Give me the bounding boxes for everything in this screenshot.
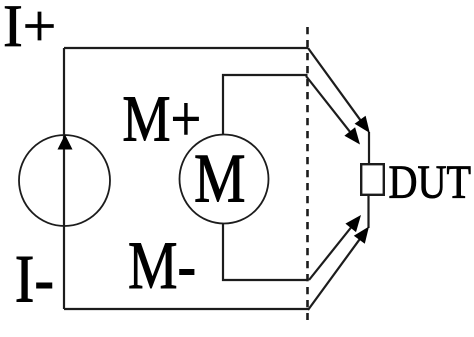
wire: sense lead diagonal M+ to DUT top [306, 76, 353, 135]
meter M1 (circle) [180, 135, 269, 224]
wire: M+ sense lead (circle top to horizontal run) [223, 75, 308, 135]
boundary: dashed fixture plane [306, 27, 309, 320]
wire: sense lead diagonal M- to DUT bottom [309, 224, 354, 280]
DUT body rectangle [361, 164, 384, 195]
svg-text:DUT: DUT [389, 156, 471, 209]
arrowhead: current direction (up) inside source [58, 135, 73, 150]
wire: force lead diagonal I- to DUT bottom [308, 236, 362, 310]
arrowhead: I- force lead at DUT bottom [354, 227, 369, 244]
wire: I- bottom horizontal [64, 308, 308, 310]
svg-text:I+: I+ [3, 0, 56, 59]
arrowhead: I+ force lead at DUT top [355, 116, 370, 133]
wire: DUT bottom terminal stub [367, 196, 369, 228]
wire: M- sense lead (circle bottom to horizontal run) [223, 224, 308, 281]
svg-text:M+: M+ [122, 83, 201, 156]
current source I1 (circle) [19, 135, 110, 226]
svg-text:M: M [194, 140, 246, 217]
wire: force lead diagonal I+ to DUT top [308, 48, 363, 124]
wire: DUT top terminal stub [368, 132, 370, 163]
arrowhead: M+ sense lead at DUT top [344, 127, 360, 144]
wire: left vertical through current source [63, 48, 65, 309]
svg-text:M-: M- [128, 229, 196, 303]
wire: I+ top horizontal [64, 47, 308, 49]
arrowhead: M- sense lead at DUT bottom [345, 215, 361, 232]
svg-text:I-: I- [15, 242, 54, 317]
